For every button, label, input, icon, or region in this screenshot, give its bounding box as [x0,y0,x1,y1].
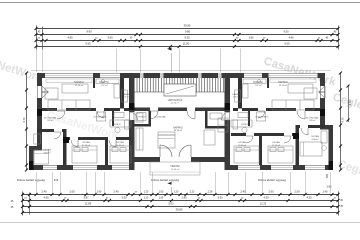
svg-text:25.10 m²: 25.10 m² [279,84,288,87]
svg-text:3.50: 3.50 [217,196,223,200]
svg-text:3.70: 3.70 [349,100,352,105]
svg-text:4.90: 4.90 [43,196,49,200]
svg-text:2.40: 2.40 [41,190,47,194]
svg-text:2.50: 2.50 [294,190,300,194]
svg-text:FÜRDŐ: FÜRDŐ [241,123,249,126]
svg-text:3.80: 3.80 [249,37,254,40]
svg-text:KÖZLEKEDŐ: KÖZLEKEDŐ [94,116,107,119]
svg-text:2.23: 2.23 [190,191,195,194]
svg-text:SZOBA: SZOBA [311,135,319,138]
svg-text:7.80 m²: 7.80 m² [47,119,54,122]
svg-text:ELŐSZOBA: ELŐSZOBA [306,117,318,120]
svg-text:9.70: 9.70 [23,117,26,122]
svg-text:29.80: 29.80 [184,24,191,28]
svg-text:9.80 m²: 9.80 m² [44,151,51,154]
svg-text:9.70: 9.70 [342,117,345,122]
svg-text:1.65: 1.65 [159,198,164,200]
svg-text:3.30: 3.30 [121,196,127,200]
svg-text:4.80: 4.80 [288,36,294,40]
svg-text:1.20: 1.20 [174,192,179,194]
svg-text:ELŐSZOBA: ELŐSZOBA [155,116,166,119]
svg-text:1.90 m²: 1.90 m² [123,96,130,99]
svg-text:12.23: 12.23 [260,202,267,206]
svg-text:NAPPALI: NAPPALI [173,126,183,129]
svg-text:KÖZLEKEDŐ: KÖZLEKEDŐ [256,116,269,119]
svg-text:GARDRÓB: GARDRÓB [211,109,221,112]
svg-text:7.97 m²: 7.97 m² [254,84,261,87]
svg-text:9.80 m²: 9.80 m² [312,138,319,141]
svg-text:12.60 m²: 12.60 m² [171,168,180,171]
svg-text:5.02: 5.02 [168,202,174,206]
svg-text:SZOBA: SZOBA [238,141,246,144]
svg-text:Klíma beltéri egység: Klíma beltéri egység [17,178,45,182]
svg-text:7.80 m²: 7.80 m² [309,119,316,122]
svg-text:4.35: 4.35 [263,196,269,200]
svg-text:NAPPALI: NAPPALI [74,81,84,84]
svg-text:SZOBA: SZOBA [116,141,124,144]
svg-text:11.80: 11.80 [183,42,190,46]
svg-text:10.90 m²: 10.90 m² [116,144,124,147]
svg-text:KAMRA: KAMRA [232,93,240,96]
svg-text:9.90: 9.90 [86,30,92,34]
svg-text:2.60: 2.60 [69,190,75,194]
svg-text:ELŐSZOBA: ELŐSZOBA [44,117,56,120]
svg-text:28.30 m²: 28.30 m² [174,129,183,132]
svg-text:2.80: 2.80 [327,186,332,189]
svg-text:6.55: 6.55 [85,42,91,46]
svg-text:2.85: 2.85 [181,196,187,200]
svg-text:FÜRDŐ: FÜRDŐ [113,123,121,126]
svg-text:14.56 m²: 14.56 m² [171,102,180,105]
svg-text:LÉPCSŐHÁZ: LÉPCSŐHÁZ [168,99,183,102]
svg-text:SZOBA: SZOBA [272,141,280,144]
svg-text:9.50: 9.50 [283,30,289,34]
svg-text:9.30: 9.30 [184,36,190,40]
svg-text:NAPPALI: NAPPALI [278,81,288,84]
svg-text:9.80: 9.80 [185,30,191,34]
svg-text:TERASZ: TERASZ [170,165,180,168]
svg-text:3.60: 3.60 [107,36,113,40]
svg-text:2.40: 2.40 [240,190,246,194]
svg-text:11.85: 11.85 [85,202,92,206]
svg-text:KONYHA: KONYHA [99,81,109,84]
svg-text:29.80: 29.80 [176,208,183,212]
svg-text:4.35: 4.35 [306,196,312,200]
svg-text:12.10 m²: 12.10 m² [272,144,280,147]
svg-text:2.40: 2.40 [113,190,119,194]
svg-text:3.87: 3.87 [83,196,89,200]
svg-text:Klíma beltéri egység: Klíma beltéri egység [151,178,179,182]
svg-text:1.20: 1.20 [144,198,149,200]
svg-text:2.60: 2.60 [268,190,274,194]
svg-text:12.10 m²: 12.10 m² [82,144,90,147]
svg-text:2.40: 2.40 [323,191,328,194]
svg-text:525: 525 [326,173,329,178]
svg-text:10.90 m²: 10.90 m² [238,144,246,147]
svg-text:25.10 m²: 25.10 m² [75,84,84,87]
svg-text:KONYHA: KONYHA [253,81,263,84]
svg-text:SZOBA: SZOBA [43,149,51,152]
svg-text:1.65: 1.65 [159,192,164,194]
svg-text:2.28: 2.28 [208,191,213,194]
svg-text:6.05: 6.05 [284,42,290,46]
svg-text:FÜRDŐ: FÜRDŐ [138,116,146,119]
svg-text:4.80: 4.80 [67,36,73,40]
svg-text:KAMRA: KAMRA [122,93,130,96]
svg-text:SZOBA: SZOBA [82,141,90,144]
svg-text:1.90 m²: 1.90 m² [233,96,240,99]
svg-text:7.97 m²: 7.97 m² [100,84,107,87]
svg-text:1.20: 1.20 [144,192,149,194]
svg-text:1.80: 1.80 [97,192,102,194]
svg-text:515: 515 [54,178,59,182]
